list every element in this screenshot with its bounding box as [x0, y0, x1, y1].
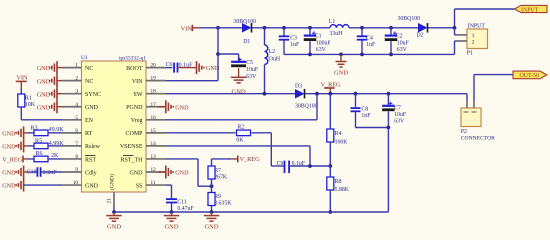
svg-text:100uF: 100uF	[316, 40, 332, 46]
svg-text:R2: R2	[237, 125, 244, 131]
wire P2 to OUT-50 port	[473, 75, 475, 101]
svg-text:R4: R4	[335, 131, 342, 137]
resistor R1 10K	[18, 94, 25, 107]
pin 20 (BOOT) right pin line	[146, 67, 166, 69]
wire VSENSE pin 14	[166, 145, 311, 147]
ground GND at pin 1	[57, 67, 62, 69]
inductor L1 33uH	[330, 25, 349, 28]
ground GND below C5	[238, 74, 240, 78]
wire V_REG to R6	[28, 158, 34, 160]
wire GND to pin 10	[24, 184, 62, 186]
ground GND at pin 4	[57, 106, 62, 108]
port INPUT (harness flag)	[515, 5, 548, 12]
node C7 tap	[387, 92, 391, 96]
svg-text:2.2nF: 2.2nF	[43, 170, 58, 176]
svg-text:R9: R9	[214, 194, 221, 200]
svg-text:7: 7	[75, 141, 78, 147]
svg-text:8: 8	[75, 154, 78, 160]
port OUT-50 (harness flag)	[513, 71, 547, 79]
node C1 tap	[308, 26, 312, 30]
svg-text:9: 9	[75, 167, 78, 173]
ground GND at pin 3	[57, 93, 62, 95]
svg-text:C9: C9	[277, 161, 284, 167]
ground GND below C11	[171, 212, 173, 216]
svg-text:tps55332-q1: tps55332-q1	[119, 56, 146, 62]
svg-text:GND: GND	[334, 69, 348, 76]
capacitor C9 0.1uF	[284, 161, 286, 173]
svg-text:10uF: 10uF	[397, 40, 410, 46]
wire L1 to D2	[349, 27, 418, 29]
svg-text:19: 19	[151, 76, 157, 82]
node C7/C8 ground junction	[387, 126, 391, 130]
pin 13 (RST_TH) right pin line	[146, 158, 166, 160]
wire R9 to bottom rail	[211, 206, 213, 213]
svg-text:2: 2	[472, 40, 475, 46]
capacitor C3 1nF	[283, 28, 285, 36]
svg-text:NC: NC	[85, 79, 93, 85]
node C3 tap	[282, 26, 286, 30]
ground GND mid rail	[340, 54, 342, 58]
wire SW pin 18 east	[166, 93, 296, 95]
svg-text:18: 18	[151, 89, 157, 95]
svg-text:16: 16	[151, 115, 157, 121]
node C5 branch junction	[216, 52, 220, 56]
svg-text:20: 20	[151, 63, 157, 69]
svg-text:GND: GND	[85, 105, 99, 111]
svg-text:0K: 0K	[236, 137, 244, 143]
capacitor C1 100uF 63V (polarized)	[309, 28, 311, 36]
svg-text:GND: GND	[85, 183, 99, 189]
svg-text:NC: NC	[85, 66, 93, 72]
svg-text:17: 17	[151, 102, 157, 108]
resistor R8 5.88K	[329, 166, 331, 177]
pin 16 (Vreg) right pin line	[146, 119, 166, 121]
svg-text:4: 4	[75, 102, 78, 108]
pin 19 (VIN) right pin line	[146, 80, 166, 82]
svg-text:GND: GND	[37, 65, 51, 72]
pin 15 (COMP) right pin line	[146, 132, 166, 134]
svg-text:U1: U1	[81, 55, 88, 61]
svg-text:12: 12	[151, 167, 157, 173]
svg-text:V_REG: V_REG	[2, 156, 22, 163]
pin 21 (GND) bottom pin of U1	[113, 192, 115, 207]
svg-text:VIN: VIN	[181, 26, 193, 33]
svg-text:R6: R6	[36, 151, 43, 157]
wire R1 to EN pin 5	[20, 107, 22, 120]
op-amp U1 tps55332-q1 IC body	[82, 61, 147, 192]
pin 2 (NC) left pin line	[62, 80, 82, 82]
wire D3 to P2	[305, 93, 467, 95]
pin 2 line of P1	[455, 40, 457, 42]
svg-text:VIN: VIN	[132, 79, 143, 85]
wire Vreg pin 16 link	[316, 94, 318, 120]
svg-text:33uH: 33uH	[267, 56, 281, 62]
wire V_REG rail to P2	[466, 94, 468, 101]
svg-text:C5: C5	[246, 60, 253, 66]
svg-text:C11: C11	[177, 200, 187, 206]
node R7/R9 junction	[210, 184, 214, 188]
svg-text:1: 1	[472, 33, 475, 39]
svg-text:C2: C2	[396, 34, 403, 40]
pin 8 (RST) left pin line	[62, 158, 82, 160]
diode D3 30BQ100	[295, 89, 305, 99]
svg-text:INPUT: INPUT	[521, 7, 539, 13]
wire GND to C10	[28, 171, 37, 173]
svg-text:63V: 63V	[397, 47, 408, 53]
svg-text:10: 10	[73, 180, 79, 186]
node input connector junction	[453, 26, 457, 30]
resistor R5 4.99K	[34, 143, 48, 149]
svg-text:Rslew: Rslew	[85, 144, 101, 150]
wire GND to R3	[28, 132, 34, 134]
wire rail up to P1 pin 2	[454, 41, 456, 54]
capacitor C4 1nF	[361, 28, 363, 36]
svg-text:10uF: 10uF	[246, 67, 259, 73]
wire capacitor ground rail	[284, 53, 455, 55]
svg-text:D3: D3	[295, 83, 302, 89]
pin 14 (VSENSE) right pin line	[146, 145, 166, 147]
svg-text:11: 11	[151, 180, 156, 186]
wire VIN port to D1	[200, 27, 243, 29]
resistor R9 3.635K	[211, 186, 213, 192]
wire bottom ground rail	[113, 207, 115, 213]
ground GND below R9	[211, 212, 213, 216]
svg-text:RST_TH: RST_TH	[120, 157, 143, 163]
resistor R3 49.9K	[34, 130, 48, 136]
wire C10 to pin 9	[41, 171, 62, 173]
svg-text:1: 1	[75, 63, 78, 69]
node C2 tap	[389, 26, 393, 30]
wire BOOT pin 20 to C6	[166, 67, 173, 69]
svg-text:1nF: 1nF	[290, 42, 300, 48]
capacitor C11 0.47uF	[166, 198, 177, 200]
pin 1 line of P2	[466, 101, 468, 108]
ground GND at pin 17 PGND	[158, 106, 166, 108]
node L2 tap	[263, 26, 267, 30]
wire SS pin 11 to C11	[166, 184, 172, 186]
capacitor C2 10uF 63V (polarized)	[390, 28, 392, 36]
wire C9 to feedback junction	[289, 165, 330, 167]
svg-text:GND: GND	[37, 104, 51, 111]
svg-text:R7: R7	[214, 168, 221, 174]
svg-text:15: 15	[151, 128, 157, 134]
pin 2 line of P2	[473, 101, 475, 108]
wire R8 to bottom rail	[329, 190, 331, 212]
inductor L2 33uH	[264, 28, 266, 45]
svg-text:0.47uF: 0.47uF	[177, 206, 194, 212]
pin 6 (RT) left pin line	[62, 132, 82, 134]
svg-text:V_REG: V_REG	[240, 156, 260, 163]
svg-text:P2: P2	[461, 129, 467, 135]
capacitor C7 10uF 63V (polarized)	[387, 94, 389, 106]
svg-text:Vreg: Vreg	[131, 118, 143, 124]
svg-text:GND: GND	[2, 170, 16, 177]
svg-text:L1: L1	[329, 19, 336, 25]
capacitor C5 10uF 63V (polarized)	[238, 58, 242, 60]
svg-text:C10: C10	[27, 170, 37, 176]
svg-text:SS: SS	[136, 183, 143, 189]
resistor R6 2K	[34, 156, 48, 162]
svg-text:SYNC: SYNC	[85, 92, 101, 98]
connector P2	[461, 108, 481, 127]
svg-text:C4: C4	[366, 35, 373, 41]
wire R3 to pin 6	[48, 132, 62, 134]
pin 10 (GND) left pin line	[62, 184, 82, 186]
power port V_REG (right of R7)	[212, 158, 232, 160]
svg-text:R3: R3	[31, 125, 38, 131]
wire D1 to L1	[252, 27, 330, 29]
svg-text:L2: L2	[269, 49, 276, 55]
svg-text:10uF: 10uF	[394, 112, 407, 118]
svg-text:GND: GND	[175, 104, 189, 111]
resistor R2 0K	[237, 130, 251, 136]
pin 1 (NC) left pin line	[62, 67, 82, 69]
svg-text:3: 3	[75, 89, 78, 95]
svg-text:100K: 100K	[335, 139, 349, 145]
wire RST_TH pin 13	[166, 158, 199, 160]
wire C7/C8 ground down to bottom rail	[387, 128, 389, 213]
pin 7 (Rslew) left pin line	[62, 145, 82, 147]
svg-text:GND: GND	[2, 144, 16, 151]
svg-text:33uH: 33uH	[330, 31, 344, 37]
svg-text:VSENSE: VSENSE	[120, 144, 143, 150]
svg-text:C1: C1	[315, 34, 322, 40]
svg-text:30BQ100: 30BQ100	[234, 19, 257, 25]
svg-text:C7: C7	[394, 106, 401, 112]
node VIN rail junction	[216, 26, 220, 30]
svg-text:1nF: 1nF	[361, 113, 371, 119]
node C8 tap	[354, 92, 358, 96]
svg-text:RT: RT	[85, 131, 93, 137]
svg-text:C3: C3	[290, 35, 297, 41]
svg-text:D2: D2	[417, 32, 424, 38]
svg-text:(GND): (GND)	[109, 174, 116, 190]
wire R4 to junction	[329, 142, 331, 166]
wire R5 to pin 7	[48, 145, 62, 147]
wire junction up to INPUT port	[454, 9, 456, 28]
node V_REG divider junction	[328, 92, 332, 96]
svg-text:GND: GND	[130, 170, 144, 176]
svg-text:GND: GND	[2, 183, 16, 190]
svg-text:D1: D1	[243, 39, 250, 45]
svg-text:R5: R5	[35, 138, 42, 144]
svg-text:63V: 63V	[394, 118, 405, 124]
svg-text:RST: RST	[85, 157, 96, 163]
svg-text:267K: 267K	[214, 174, 228, 180]
resistor R7 267K	[211, 159, 213, 166]
wire R2 to C9	[252, 132, 272, 134]
svg-text:COMP: COMP	[125, 131, 143, 137]
pin 11 (SS) right pin line	[146, 184, 166, 186]
svg-text:EN: EN	[85, 118, 94, 124]
svg-text:C6: C6	[166, 62, 173, 68]
pin 4 (GND) left pin line	[62, 106, 82, 108]
capacitor C10 2.2nF	[36, 167, 38, 177]
wire VIN pin 19 up to input rail	[166, 80, 219, 82]
ground GND at C6	[189, 67, 197, 69]
svg-text:13: 13	[151, 154, 157, 160]
svg-text:C8: C8	[361, 107, 368, 113]
ground GND below pin 21	[113, 212, 115, 216]
svg-text:PGND: PGND	[126, 105, 143, 111]
svg-text:GND: GND	[37, 91, 51, 98]
wire D2 to P1 junction	[428, 27, 455, 29]
wire R6 to pin 8	[48, 158, 62, 160]
svg-text:3.635K: 3.635K	[214, 201, 232, 207]
pin 9 (Cdly) left pin line	[62, 171, 82, 173]
svg-text:1nF: 1nF	[366, 42, 376, 48]
svg-text:P1: P1	[467, 51, 473, 57]
pin 1 line of P1	[454, 28, 456, 35]
svg-text:R1: R1	[25, 95, 32, 101]
svg-text:63V: 63V	[246, 74, 257, 80]
svg-text:GND: GND	[2, 130, 16, 137]
pin 5 (EN) left pin line	[62, 119, 82, 121]
diode D2 30BQ100	[418, 23, 428, 33]
resistor R4 100K	[327, 129, 334, 142]
node feedback junction	[328, 164, 332, 168]
svg-text:30BQ100: 30BQ100	[398, 16, 421, 22]
pin 18 (SW) right pin line	[146, 93, 166, 95]
svg-text:63V: 63V	[316, 47, 327, 53]
wire COMP pin 15 to R2	[166, 132, 236, 134]
svg-text:BOOT: BOOT	[126, 66, 143, 72]
svg-text:GND: GND	[204, 224, 218, 231]
node C4 tap	[360, 26, 364, 30]
svg-text:GND: GND	[107, 224, 121, 231]
svg-text:SW: SW	[134, 92, 143, 98]
svg-text:21: 21	[107, 198, 113, 204]
svg-text:CONNECTOR: CONNECTOR	[461, 136, 495, 142]
svg-text:GND: GND	[175, 170, 189, 177]
pin 3 (SYNC) left pin line	[62, 93, 82, 95]
svg-text:OUT-50: OUT-50	[520, 73, 539, 79]
svg-text:R8: R8	[335, 179, 342, 185]
svg-text:10K: 10K	[25, 102, 36, 108]
ground GND at pin 12	[158, 171, 166, 173]
ground GND at pin 2	[57, 80, 62, 82]
capacitor C6 0.1uF	[173, 63, 175, 73]
svg-text:2: 2	[75, 76, 78, 82]
diode D1 30BQ100	[242, 23, 252, 33]
svg-text:5: 5	[75, 115, 78, 121]
svg-text:5.88K: 5.88K	[335, 187, 350, 193]
svg-text:VIN: VIN	[17, 75, 29, 82]
svg-text:6: 6	[75, 128, 78, 134]
node L2 bottom junction	[263, 92, 267, 96]
wire GND to R5	[28, 145, 34, 147]
svg-text:GND: GND	[37, 78, 51, 85]
pin 12 (GND) right pin line	[146, 171, 166, 173]
node VSENSE junction	[308, 164, 312, 168]
svg-text:30BQ100: 30BQ100	[295, 104, 318, 110]
wire to C5	[218, 53, 239, 55]
wire V_REG to R4	[329, 94, 331, 129]
pin 17 (PGND) right pin line	[146, 106, 166, 108]
svg-text:Cdly: Cdly	[85, 170, 97, 176]
capacitor C8 1nF	[355, 94, 357, 108]
node Vreg junction	[315, 92, 319, 96]
svg-text:GND: GND	[164, 224, 178, 231]
svg-text:14: 14	[151, 141, 157, 147]
wire C6 to GND (maroon)	[178, 67, 189, 69]
wire VIN to R1	[20, 89, 22, 95]
